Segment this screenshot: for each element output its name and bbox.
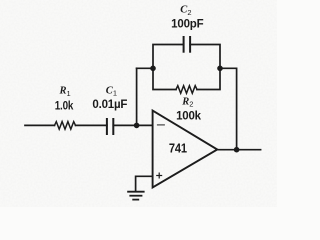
svg-text:1.0k: 1.0k [55,101,74,113]
wire corner to left feedback node [137,67,153,69]
wire C1 to inverting input [113,124,152,126]
svg-text:741: 741 [169,140,187,155]
wire C2 left branch [153,45,184,69]
wire noninverting input [136,176,153,191]
node left feedback junction [150,66,156,72]
capacitor C2 [184,37,191,52]
node output junction [234,147,240,153]
capacitor C1 [107,119,113,134]
node right feedback junction [217,66,223,72]
wire input [25,124,55,126]
wire output [217,149,260,151]
wire right feedback to output [220,68,237,149]
svg-text:100k: 100k [176,110,202,122]
wire R2 left branch [153,68,176,89]
wire C2 right branch [190,45,220,69]
wire R1 to C1 [76,124,107,126]
svg-text:0.01µF: 0.01µF [92,99,127,111]
node A junction inverting input [134,123,140,129]
op-amp U1 triangle [153,111,218,188]
svg-text:100pF: 100pF [171,19,203,31]
resistor R1 [55,122,76,130]
resistor R2 [176,86,197,94]
ground [128,192,144,200]
pin plus [157,173,162,178]
wire node A up [136,68,138,125]
wire R2 right branch [197,68,220,89]
pin minus [158,124,165,126]
